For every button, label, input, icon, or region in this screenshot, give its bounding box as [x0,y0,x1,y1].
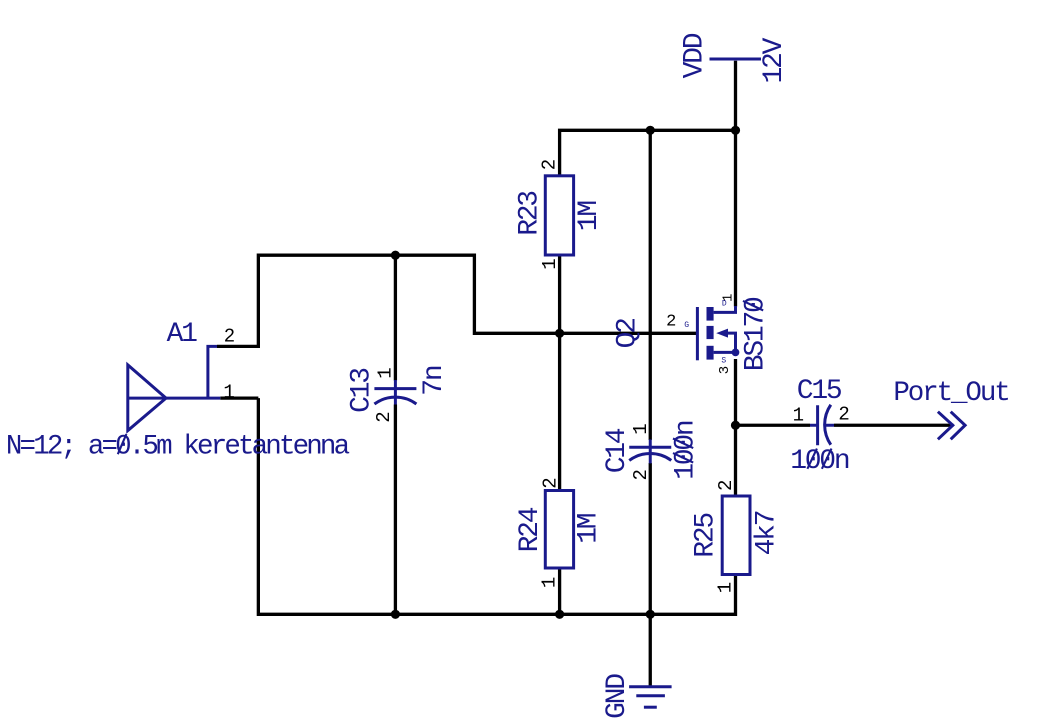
resistor R24 [545,491,573,569]
wire C14 bottom to rail [649,463,652,614]
label Port_Out [893,378,1008,409]
label R23 [515,191,546,236]
svg-text:Port_Out: Port_Out [893,378,1008,409]
svg-text:2: 2 [373,411,395,422]
wire drain vertical [734,130,737,306]
pin name S of Q2 [721,357,726,366]
pin 1 of A1 [223,381,234,403]
svg-text:1: 1 [539,577,561,588]
label 100n of C14 [671,421,702,480]
pin 1 of R25 [715,582,737,593]
wire C13 top [394,255,397,380]
capacitor C13 [374,380,416,405]
svg-text:3: 3 [717,366,733,374]
ground GND [629,687,672,708]
svg-text:D: D [722,300,727,309]
svg-text:1: 1 [715,582,737,593]
junction source / output [731,421,740,430]
resistor R25 [722,496,750,575]
svg-text:R24: R24 [515,507,546,552]
svg-text:VDD: VDD [680,33,711,78]
resistor R23 [545,176,573,255]
label R25 [691,513,722,558]
label BS170 [741,297,772,371]
wire mid branch to C14 [649,130,652,440]
pin name G of Q2 [684,321,689,330]
svg-text:G: G [684,321,689,330]
svg-text:Q2: Q2 [612,319,643,349]
svg-text:2: 2 [539,477,561,488]
pin 1 of C15 [793,405,804,427]
svg-text:12V: 12V [759,37,790,83]
pin 2 of A1 [224,326,235,348]
label 4k7 of R25 [752,511,783,555]
pin 1 of R23 [539,258,561,269]
svg-text:1: 1 [793,405,804,427]
pin 2 of C15 [838,403,849,425]
label 7n of C13 [419,366,450,396]
power VDD supply bar [710,58,762,61]
pin 1 of C14 [630,423,652,434]
svg-text:1: 1 [539,258,561,269]
svg-text:GND: GND [602,674,633,719]
wire C13 bottom [394,405,397,615]
wire antenna pin2 to gate [217,255,696,346]
wire R23 bottom to R24 top [558,255,561,491]
source junction dot [732,349,740,357]
svg-text:100n: 100n [790,446,849,477]
wire R24 bottom to rail [558,568,561,614]
svg-text:A1: A1 [167,319,198,350]
channel segment top [707,307,714,321]
wire bottom rail from antenna to R25 [258,398,735,614]
wire GND stub [649,614,652,686]
svg-text:2: 2 [666,313,676,332]
port Port_Out chevron [938,412,965,440]
label 1M of R23 [574,201,605,232]
label A1 [167,319,198,350]
label 100n of C15 [790,446,849,477]
label 12V [759,37,790,83]
label 1M of R24 [574,513,605,544]
label VDD [680,33,711,78]
svg-text:1M: 1M [574,513,605,544]
label C14 [602,428,633,473]
junction gate / divider [555,329,564,338]
capacitor C15 [810,405,834,446]
pin 2 of Q2 gate [666,313,676,332]
svg-text:S: S [721,357,726,366]
drain lead [714,306,736,312]
svg-text:R25: R25 [691,513,722,558]
pin 2 of C14 [630,469,652,480]
svg-text:100n: 100n [671,421,702,480]
wire output left [736,424,811,427]
label R24 [515,507,546,552]
label C15 [797,376,842,407]
svg-text:R23: R23 [515,191,546,236]
capacitor C14 [629,439,671,463]
svg-text:1: 1 [374,367,396,378]
pin name D of Q2 [722,300,727,309]
svg-text:C15: C15 [797,376,842,407]
svg-text:2: 2 [224,326,235,348]
pin 2 of R23 [538,159,560,170]
pin 1 of Q2 drain [720,294,736,302]
svg-text:2: 2 [715,480,737,491]
svg-text:2: 2 [538,159,560,170]
pin 3 of Q2 source [717,366,733,374]
svg-text:C14: C14 [602,428,633,473]
svg-text:4k7: 4k7 [752,511,783,555]
pin 2 of R25 [715,480,737,491]
pin 1 of C13 [374,367,396,378]
junction C13 top [391,251,400,260]
svg-text:7n: 7n [419,366,450,396]
junction top rail / VDD [731,126,740,135]
channel segment middle [707,326,714,339]
antenna A1 [128,346,221,430]
wire top rail with R23 drop [560,130,736,176]
svg-text:1: 1 [223,381,234,403]
wire VDD stub [734,61,737,131]
note N=12 keretantenna [6,432,350,463]
wire antenna pin1 stub [220,396,258,399]
junction top rail / C14 branch [646,126,655,135]
junction rail / GND [646,610,655,619]
channel segment bottom [707,346,714,360]
pin 1 of R24 [539,577,561,588]
source lead [714,351,736,354]
svg-text:C13: C13 [346,368,377,413]
label C13 [346,368,377,413]
label GND [602,674,633,719]
label Q2 [612,319,643,349]
wire output right [834,424,954,427]
junction rail / C13 [391,610,400,619]
transistor Q2 BS170 [697,306,739,360]
junction rail / R24 [555,610,564,619]
svg-text:N=12; a=0.5m keretantenna: N=12; a=0.5m keretantenna [6,432,350,463]
svg-text:2: 2 [838,403,849,425]
wire source to R25 [734,359,737,496]
svg-text:1: 1 [630,423,652,434]
svg-text:1M: 1M [574,201,605,232]
gate bar [696,307,699,360]
pin 2 of C13 [373,411,395,422]
svg-text:2: 2 [630,469,652,480]
pin 2 of R24 [539,477,561,488]
body lead [727,333,736,352]
body arrow [716,329,728,338]
